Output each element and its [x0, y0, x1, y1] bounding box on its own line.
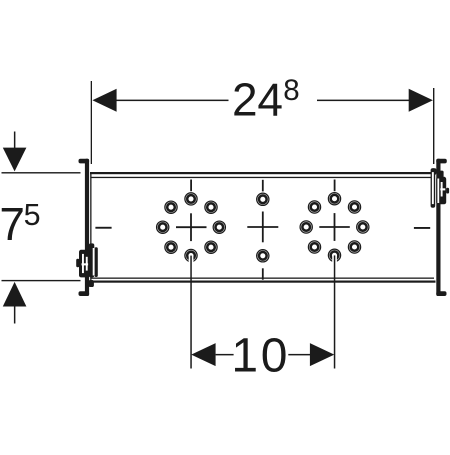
right leader channel: [332, 255, 337, 263]
left fastener clip: [76, 243, 98, 277]
dimension 24.8 left arrowhead: [92, 89, 116, 112]
dimension 10 line left stub: [216, 354, 234, 356]
plate centerline dash right: [414, 227, 430, 229]
dimension 7.5 up arrowhead: [3, 282, 27, 307]
dimension 24.8 right extension line: [433, 88, 434, 164]
right rail bottom hook: [436, 291, 446, 296]
dimension 7.5 top reference line: [2, 172, 81, 173]
plate bottom inner edge: [90, 278, 434, 279]
left hole cluster: [157, 180, 224, 369]
left cluster centerline dash top: [190, 180, 192, 192]
left cluster holes: [157, 194, 224, 261]
left rail bottom hook: [79, 291, 90, 296]
plate top inner edge: [90, 177, 431, 178]
svg-text:8: 8: [283, 74, 299, 107]
dimension 7.5 down arrowhead: [3, 148, 27, 172]
left rail top hook: [79, 159, 90, 164]
right cluster holes: [301, 193, 368, 260]
svg-text:24: 24: [232, 74, 283, 126]
dimension 10: [191, 330, 334, 383]
middle centerline dash top: [262, 180, 264, 192]
plate bottom outer edge: [90, 281, 436, 283]
plate left end edge: [90, 173, 91, 282]
plate centerline dash left: [95, 227, 111, 229]
dimension 7.5 down arrow shaft: [14, 132, 16, 149]
right rail top foot: [431, 168, 436, 174]
left cluster center cross: [176, 213, 207, 241]
svg-text:5: 5: [24, 198, 41, 232]
dimension 24.8 left extension line: [91, 81, 92, 164]
right rail vertical bar: [436, 159, 440, 296]
right cluster center cross: [319, 213, 350, 241]
left cluster leader line: [190, 256, 192, 369]
dimension 24.8 line right segment: [317, 100, 410, 102]
right rail top hook: [436, 159, 447, 164]
middle center cross: [247, 212, 278, 243]
middle holes: [258, 194, 269, 261]
right cluster leader line: [334, 255, 336, 368]
dimension 24.8 line left segment: [114, 100, 229, 102]
svg-text:7: 7: [0, 198, 25, 250]
dimension 7.5 up arrow shaft: [14, 307, 16, 324]
right hole cluster: [301, 180, 368, 369]
dimension 24.8 right arrowhead: [409, 89, 433, 112]
left rail bottom foot: [89, 280, 94, 287]
dimension 10 right arrowhead: [310, 343, 334, 366]
middle hole column: [247, 180, 278, 280]
right cluster centerline dash top: [334, 180, 336, 192]
left rail vertical bar: [85, 159, 89, 296]
right fastener clip: [431, 168, 450, 208]
dimension 10 left arrowhead: [191, 343, 215, 366]
dimension 10 line right stub: [288, 354, 310, 356]
right rail profile: [431, 159, 447, 296]
plate top outer edge: [90, 172, 434, 174]
left rail profile: [79, 159, 94, 296]
middle centerline dash bottom: [262, 268, 264, 279]
left leader channel: [189, 255, 194, 263]
dimension 7.5 bottom reference line: [2, 280, 81, 281]
